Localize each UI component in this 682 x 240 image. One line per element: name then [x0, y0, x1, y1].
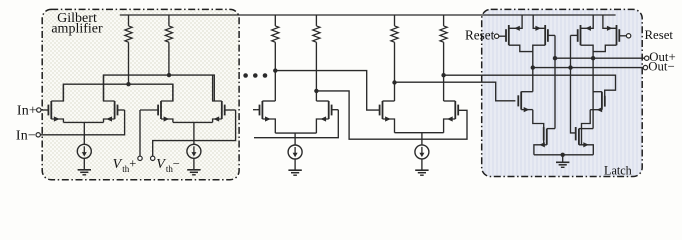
transistor M3 (pair2 left)	[140, 84, 173, 122]
wire: stage B source rail	[395, 132, 444, 134]
ground (pair1)	[78, 170, 91, 175]
transistor M1 (pair1 left)	[48, 84, 63, 122]
transistor M2 (pair1 right)	[104, 75, 125, 122]
node Out- terminal	[643, 65, 647, 69]
transistor M12 (cc NMOS right)	[576, 127, 594, 155]
current source I4	[415, 145, 429, 159]
junction: R4 output node	[314, 89, 318, 93]
svg-text:Latch: Latch	[604, 164, 632, 178]
transistor T3 (cross PMOS right)	[571, 25, 581, 45]
wire: M9 source path	[533, 110, 544, 145]
current source I2	[187, 144, 201, 158]
label Vth+	[113, 157, 137, 174]
svg-text:Reset: Reset	[645, 28, 674, 42]
wire: tail to ground	[562, 155, 564, 163]
wire: pair1 source rail	[63, 121, 103, 123]
transistor T1 (reset PMOS left)	[499, 25, 509, 45]
dashed box: Gilbert amplifier block	[42, 9, 239, 179]
node Reset right terminal	[626, 34, 630, 38]
transistor M11 (cc NMOS left)	[534, 127, 555, 155]
label Out+	[649, 50, 675, 64]
wire: line B to latch left input gate	[395, 82, 516, 101]
wire: rail B (R1 to M1/M3 drains)	[63, 84, 172, 101]
wire: Vth- to M4 gate	[153, 110, 236, 156]
label In-	[16, 128, 36, 143]
wire: Out+ node vertical right	[592, 45, 594, 129]
wire: I2 to ground	[193, 158, 195, 170]
wire: rail A (R2 to M2/M4 drains)	[104, 75, 215, 101]
wire: T1 drain step	[509, 45, 533, 51]
transistor M5 (stage A left)	[257, 101, 275, 133]
resistor R6	[440, 15, 447, 101]
wire: stage A source rail	[275, 132, 316, 134]
wire: In- line to M2 gate	[40, 110, 124, 135]
ground (stage B)	[415, 170, 428, 175]
svg-text:V: V	[113, 157, 123, 172]
junction: R1-rail B	[126, 82, 130, 86]
node Vth+ terminal	[138, 156, 142, 160]
ground (pair2)	[187, 170, 200, 175]
wire: stage A out+ to M7 gate	[275, 71, 379, 111]
resistor R5	[391, 15, 398, 101]
wire: stage B tail	[421, 133, 423, 145]
ground (latch)	[556, 162, 569, 167]
wire: T1 source to VDD	[509, 15, 522, 31]
svg-text:V: V	[156, 157, 166, 172]
wire: T4 drain step	[593, 45, 616, 51]
junction: R3 output node	[273, 68, 277, 72]
svg-text:Reset: Reset	[465, 28, 495, 43]
wire: I3 to ground	[294, 159, 296, 170]
wire: T3 source to VDD	[581, 15, 594, 31]
current source I3	[288, 145, 302, 159]
wire: T3 gate / Out- tap / ccR gate vertical	[571, 35, 576, 132]
junction: right branch to Out+	[591, 56, 595, 60]
transistor M4 (pair2 right)	[213, 75, 236, 122]
wire: T2 drain	[533, 44, 545, 46]
resistor R4	[313, 15, 320, 101]
resistor R3	[272, 15, 279, 101]
node In- terminal	[36, 133, 40, 137]
wire: stage A tail	[294, 133, 296, 145]
transistor T2 (cross PMOS left)	[545, 25, 555, 45]
label Latch	[604, 164, 632, 178]
wire: M10 source path	[582, 110, 591, 145]
svg-text:In+: In+	[17, 103, 37, 118]
resistor R2	[165, 15, 172, 75]
transistor M6 (stage A right)	[316, 101, 338, 133]
current source I1	[77, 144, 91, 158]
wire: Out+ line	[555, 57, 645, 59]
wire: T2 source to VDD	[533, 15, 545, 31]
transistor M10 (latch input right)	[590, 92, 605, 113]
wire: Vth+ to M3 gate	[139, 110, 141, 156]
node Reset left terminal	[494, 34, 498, 38]
wire: Out- line	[533, 67, 643, 69]
transistor T4 (reset PMOS right)	[617, 25, 627, 45]
junction: R6 node (latch in+)	[441, 73, 445, 77]
ellipsis (chain continues)	[243, 73, 267, 78]
transistor M8 (stage B right)	[444, 101, 459, 133]
svg-text:In−: In−	[16, 128, 36, 143]
junction: T3 gate tap on Out-	[568, 65, 572, 69]
node In+ terminal	[37, 108, 41, 112]
wire: line A to latch right input gate	[444, 75, 616, 96]
wire: VDD top rail	[120, 14, 616, 16]
label Gilbert amplifier	[51, 11, 103, 36]
transistor M9 (latch input left)	[518, 92, 533, 113]
wire: I1 to ground	[83, 158, 85, 170]
svg-text:+: +	[129, 157, 136, 171]
wire: pair2 source rail	[173, 121, 213, 123]
wire: I4 to ground	[421, 159, 423, 170]
label In+	[17, 103, 37, 118]
node Vth- terminal	[151, 156, 155, 160]
wire: pair2 tail	[193, 122, 195, 144]
wire: In+ to M1 gate	[41, 109, 48, 111]
transistor M7 (stage B left)	[380, 101, 395, 133]
ground (stage A)	[288, 170, 301, 175]
label Out-	[648, 60, 674, 74]
label Vth-	[156, 157, 179, 174]
wire: T4 source to VDD	[603, 15, 617, 31]
label Reset (right)	[645, 28, 674, 42]
wire: stage A right gate input	[254, 110, 338, 138]
wire: pair1 tail	[83, 122, 85, 144]
label Reset (left)	[465, 28, 495, 43]
wire: Out+ node vertical (T2 gate / ccL drain)	[554, 35, 556, 128]
node Out+ terminal	[645, 56, 649, 60]
wire: stage A left gate stub	[253, 109, 257, 111]
dashed box: Latch block	[482, 9, 643, 176]
wire: latch tail rail	[534, 154, 593, 156]
wire: T3 drain	[581, 44, 594, 46]
svg-text:−: −	[173, 157, 180, 171]
junction: Out+ node	[553, 56, 557, 60]
junction: latch tail	[561, 153, 565, 157]
junction: R5 node (latch in-)	[392, 80, 396, 84]
wire: stage A out- to M8 gate	[316, 91, 467, 139]
junction: Out- node	[531, 65, 535, 69]
svg-text:amplifier: amplifier	[51, 22, 103, 37]
junction: R2-rail A	[167, 73, 171, 77]
svg-text:Out−: Out−	[648, 60, 674, 74]
resistor R1	[125, 15, 132, 84]
wire: Out- node vertical	[532, 45, 534, 92]
